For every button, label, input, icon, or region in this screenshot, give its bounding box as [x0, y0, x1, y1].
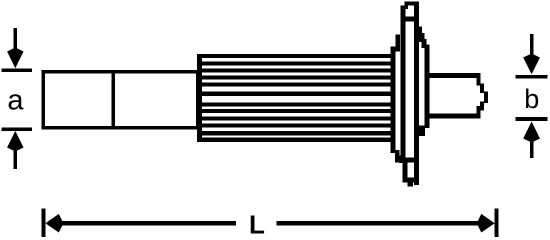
dimension L right arrowhead	[477, 214, 495, 233]
stub end step bottom	[476, 106, 480, 119]
flange top-right step 2	[419, 33, 425, 42]
flange top tab cap	[404, 2, 418, 6]
stub shaft top line	[429, 73, 481, 78]
dimension b top tick	[516, 75, 548, 79]
dimension b bottom tick	[516, 117, 548, 121]
shaft divider line	[111, 70, 115, 129]
flange inner bottom line	[396, 158, 419, 163]
svg-text:a: a	[7, 85, 24, 117]
flange disc right edge	[414, 2, 419, 186]
stub end step top2	[480, 84, 484, 94]
flange top tab notch	[404, 2, 408, 9]
svg-text:b: b	[524, 84, 539, 114]
shaft body rectangle	[43, 72, 198, 128]
flange bottom tab cap	[403, 178, 416, 183]
spline left border	[197, 54, 202, 142]
flange top-right step 1	[416, 26, 422, 36]
stub end step bottom2	[480, 102, 484, 111]
flange top-left step	[396, 35, 401, 52]
dimension b down-arrow	[523, 34, 540, 74]
dimension a bottom tick	[2, 127, 33, 131]
dimension a down-arrow	[7, 28, 23, 68]
flange top-right step 3	[421, 39, 426, 48]
dimension L left tick	[42, 209, 46, 238]
stub end step top	[476, 73, 480, 85]
dimension a up-arrow	[7, 131, 23, 169]
spline section stripes	[197, 54, 391, 142]
dimension b up-arrow	[523, 122, 540, 159]
flange disc left edge	[401, 6, 406, 163]
flange bottom-left step 1	[395, 150, 400, 163]
stub shaft bottom line	[429, 114, 481, 119]
dimension a top tick	[2, 68, 33, 72]
flange bottom-right step	[419, 126, 425, 136]
dimension L line right segment	[277, 221, 483, 225]
dimension L line left segment	[57, 221, 236, 225]
dimension L right tick	[495, 209, 499, 238]
flange bottom tab notch	[408, 181, 414, 186]
flange bottom-left step 2	[399, 156, 404, 164]
flange tooth-root bar	[391, 47, 396, 154]
flange bottom tab left edge	[403, 163, 408, 183]
stub end middle	[484, 91, 488, 103]
svg-text:L: L	[249, 209, 265, 239]
flange rim right edge	[424, 45, 429, 129]
flange inner top line	[401, 16, 419, 21]
dimension L left arrowhead	[45, 214, 63, 233]
